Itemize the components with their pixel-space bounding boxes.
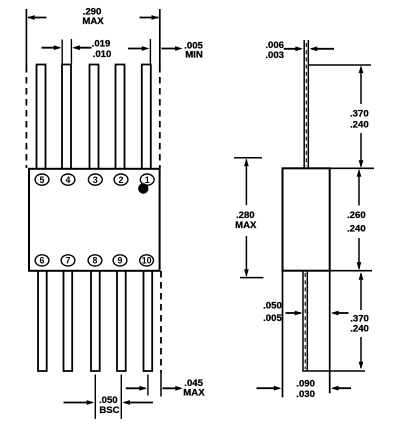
svg-text:8: 8 [93, 256, 98, 266]
svg-text:MAX: MAX [235, 220, 257, 231]
svg-text:BSC: BSC [99, 405, 119, 416]
pin 10 centerline extension [147, 375, 149, 396]
pin lead 1 (top) [142, 65, 151, 169]
svg-text:2: 2 [119, 175, 124, 185]
svg-text:.240: .240 [347, 224, 366, 235]
svg-text:.370: .370 [350, 109, 369, 120]
pin 9 centerline extension [120, 375, 122, 420]
pin lead 5 (top) [37, 65, 46, 169]
pin lead 4 (top) [62, 65, 71, 169]
dimension .019/.010 arrows [42, 47, 60, 49]
dimension .260/.240 line and arrows [358, 170, 360, 205]
svg-text:.030: .030 [296, 389, 315, 400]
dimension .050/.005 arrows [286, 312, 301, 314]
pin lead 7 (bottom) [64, 271, 73, 371]
package body (front view) [29, 169, 160, 271]
side view top lead (left edge) [303, 40, 305, 169]
pin number circles bottom row 6 7 8 9 10 [35, 255, 49, 266]
pin 8 centerline extension [94, 375, 96, 420]
dimension .280 MAX bottom tick [240, 277, 264, 279]
dimension .005 MIN arrows [128, 48, 147, 50]
svg-text:7: 7 [66, 256, 71, 266]
dimension .050 BSC arrows [64, 402, 93, 404]
svg-text:.240: .240 [350, 324, 369, 335]
dimension .006/.003 arrows [284, 48, 301, 50]
dimension .280 MAX line and arrows [245, 160, 247, 206]
side view top lead centerline [305, 43, 307, 166]
svg-text:9: 9 [118, 256, 123, 266]
svg-text:4: 4 [66, 175, 71, 185]
svg-text:.260: .260 [347, 210, 366, 221]
body top edge extension (right) [330, 167, 374, 169]
pin lead 3 (top) [90, 65, 99, 169]
side view bottom lead (left edge) [302, 271, 304, 371]
dimension .045 MAX arrows [126, 387, 146, 389]
left max-width extension line (left, .290 MAX) [25, 9, 27, 66]
svg-text:.003: .003 [265, 50, 284, 61]
pin 4 width extension lines [61, 40, 63, 65]
bottom lead end line [302, 370, 365, 372]
svg-text:MIN: MIN [185, 49, 203, 60]
svg-text:.240: .240 [350, 120, 369, 131]
max-extent dashed line below body (right) [160, 271, 162, 373]
dimension .370/.240 (top) line and arrows [360, 67, 362, 104]
pin lead 9 (bottom) [117, 271, 126, 371]
svg-text:.019: .019 [92, 39, 111, 50]
pin 1 index dot [138, 183, 148, 193]
side view body [283, 168, 330, 270]
pin number circles top row 5 4 3 2 1 [35, 174, 49, 185]
body bottom edge extension (right) [330, 270, 372, 272]
dimension .370/.240 (bottom) line and arrows [360, 273, 362, 310]
side view top lead (right edge) [307, 40, 309, 169]
body right edge extension (down) [329, 271, 331, 394]
svg-text:1: 1 [145, 175, 150, 185]
svg-text:MAX: MAX [82, 16, 104, 27]
svg-text:3: 3 [93, 175, 98, 185]
side view bottom lead centerline [304, 273, 306, 369]
svg-text:10: 10 [142, 256, 152, 266]
pin 1 right-edge extension line [149, 39, 151, 65]
svg-text:.005: .005 [263, 313, 282, 324]
pin lead 8 (bottom) [91, 271, 100, 371]
right max-width extension line (.290 MAX / .005 MIN) [159, 9, 161, 66]
svg-text:6: 6 [40, 256, 45, 266]
body left edge extension (down) [282, 271, 284, 398]
pin lead 2 (top) [116, 65, 125, 169]
dimension .290 MAX arrows [28, 17, 47, 19]
svg-text:.010: .010 [93, 49, 112, 60]
dimension .090/.030 arrows [257, 387, 280, 389]
svg-text:.050: .050 [263, 301, 282, 312]
pin lead 6 (bottom) [38, 271, 47, 371]
dimension .280 MAX top tick [234, 157, 262, 159]
lead length reference line (top) [308, 64, 371, 66]
svg-text:.090: .090 [296, 378, 315, 389]
side view bottom lead (right edge) [306, 271, 308, 371]
pin lead 10 (bottom) [144, 271, 153, 371]
extension line at max edge (bottom) [160, 373, 162, 397]
svg-text:5: 5 [40, 175, 45, 185]
svg-text:MAX: MAX [183, 388, 205, 399]
